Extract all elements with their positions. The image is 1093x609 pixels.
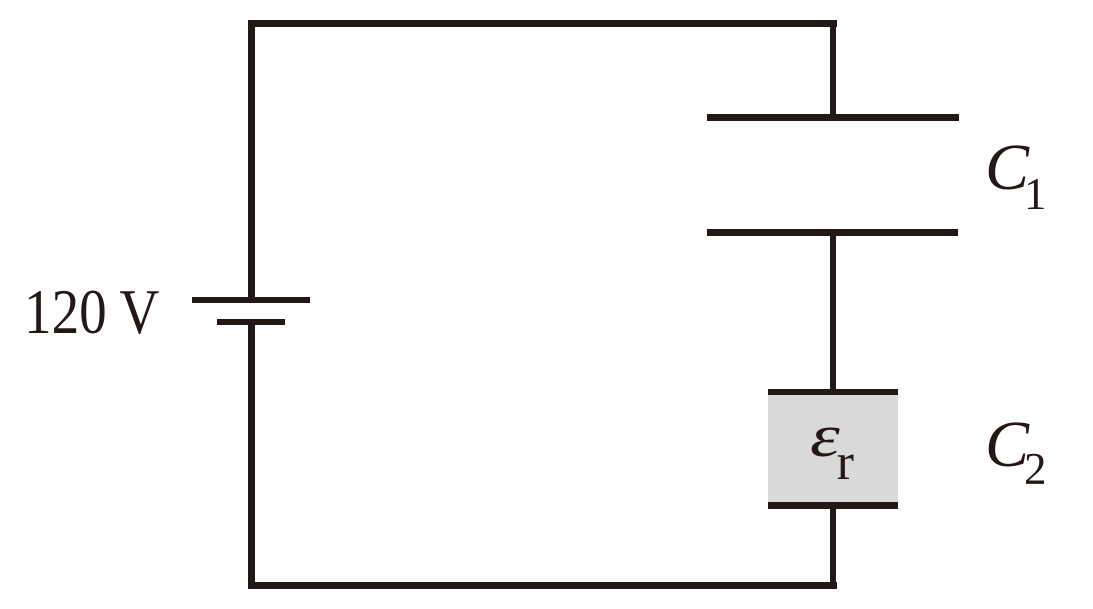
capacitor C2 top plate — [768, 389, 899, 395]
capacitor C2 bottom plate — [768, 502, 899, 509]
wire left lower — [248, 319, 255, 589]
wire right upper — [830, 20, 836, 120]
battery V top plate — [192, 297, 311, 303]
label C2 — [985, 412, 1047, 492]
wire right middle — [830, 229, 836, 392]
wire left upper — [248, 20, 255, 303]
label epsilon_r (dielectric constant) — [810, 406, 854, 489]
capacitor C1 bottom plate — [707, 229, 958, 235]
battery V bottom plate — [217, 319, 285, 325]
wire bottom — [248, 582, 837, 589]
label 120 V (battery voltage) — [24, 281, 159, 344]
capacitor C1 top plate — [707, 114, 959, 121]
wire right lower — [830, 502, 836, 590]
wire top — [248, 20, 837, 27]
dielectric slab of C2 — [768, 394, 898, 502]
label C1 — [985, 135, 1047, 217]
